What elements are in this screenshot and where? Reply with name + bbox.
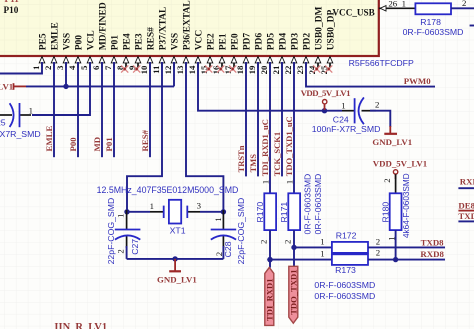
pin 22 name PD3 bbox=[291, 33, 301, 51]
svg-text:4: 4 bbox=[67, 65, 77, 70]
pin 21 name PD4 bbox=[279, 33, 289, 51]
svg-text:R178: R178 bbox=[420, 17, 441, 27]
svg-text:11: 11 bbox=[151, 66, 161, 74]
svg-text:21: 21 bbox=[271, 66, 281, 75]
pin 25 name USB0_DP bbox=[327, 9, 337, 50]
svg-text:100nF-X7R_SMD: 100nF-X7R_SMD bbox=[0, 129, 41, 139]
part number R5F566TFCDFP bbox=[349, 58, 414, 68]
resistor R180 bbox=[381, 173, 411, 241]
wire pin20 PD5 to R170 bbox=[269, 62, 271, 193]
svg-text:1: 1 bbox=[150, 201, 154, 211]
svg-text:C27: C27 bbox=[130, 239, 140, 255]
svg-text:GND_LV1: GND_LV1 bbox=[372, 137, 412, 147]
svg-text:4k64-F-0603SMD: 4k64-F-0603SMD bbox=[402, 173, 411, 238]
svg-text:10: 10 bbox=[139, 65, 149, 74]
pin 3 (VSS) arrow and number bbox=[55, 57, 69, 70]
crystal XT1 bbox=[150, 200, 202, 236]
junction R170/RXD8 line bbox=[267, 257, 272, 262]
wire C24 pin2 to ground bbox=[370, 111, 390, 127]
pin 22 (PD3) arrow and number bbox=[283, 57, 297, 75]
pin P10 (left side pin name) bbox=[4, 5, 19, 15]
svg-text:PWM0: PWM0 bbox=[404, 76, 431, 86]
junction crystal pin1 / C27 bbox=[124, 209, 129, 214]
svg-text:R170: R170 bbox=[255, 202, 265, 223]
pin 15 name PE2 bbox=[207, 33, 217, 50]
pin 12 name VSS bbox=[171, 33, 181, 50]
wire crystal bottom rail bbox=[127, 258, 224, 260]
wire crystal pin1 horizontal bbox=[127, 211, 150, 213]
wire pin13 P36/EXTAL to crystal pin3 branch bbox=[186, 62, 223, 212]
pin 13 (P36/EXTAL) arrow and number bbox=[175, 57, 189, 75]
svg-text:P00: P00 bbox=[75, 35, 85, 51]
pin 26 name VCC_USB bbox=[332, 7, 374, 17]
wire RXD8 line from R170 junction through R173 bbox=[270, 259, 332, 261]
svg-text:22pF-COG_SMD: 22pF-COG_SMD bbox=[236, 198, 246, 265]
pin 5 name VCL bbox=[87, 30, 97, 50]
svg-text:R180: R180 bbox=[381, 202, 391, 223]
svg-text:5: 5 bbox=[79, 65, 89, 70]
svg-text:0R-F-0603SMD: 0R-F-0603SMD bbox=[302, 174, 312, 235]
svg-text:R172: R172 bbox=[336, 231, 357, 241]
wire pin4 P00 down bbox=[77, 62, 79, 157]
pin 24 (USB0_DM) arrow and number bbox=[307, 57, 321, 75]
svg-text:VDD_5V_LV1: VDD_5V_LV1 bbox=[301, 88, 351, 98]
wire C27 down to rail bbox=[126, 246, 128, 259]
svg-text:PE3: PE3 bbox=[135, 33, 145, 50]
svg-text:P00: P00 bbox=[68, 137, 78, 152]
wire pin5 VCL to capacitor C25 bbox=[32, 62, 90, 115]
net label P00 bbox=[68, 137, 78, 152]
net label TMS bbox=[248, 154, 258, 173]
wire crystal pin3 horizontal bbox=[200, 211, 223, 213]
svg-text:C25: C25 bbox=[0, 118, 6, 128]
junction R180/RXD8 bbox=[393, 257, 398, 262]
pin 6 name MD/FINED bbox=[99, 2, 109, 50]
wire pin10 RES# down bbox=[149, 62, 151, 157]
svg-text:1: 1 bbox=[213, 217, 223, 221]
no-ERC marker (red X) on pin 8 bbox=[121, 65, 128, 72]
wire R171 pin2 down to TDO flag bbox=[293, 230, 295, 266]
pin 8 name PE4 bbox=[123, 33, 133, 50]
net label TRSTn bbox=[236, 145, 246, 172]
svg-text:PE2: PE2 bbox=[207, 33, 217, 50]
svg-text:TRSTn: TRSTn bbox=[236, 145, 246, 172]
svg-text:R173: R173 bbox=[335, 265, 356, 275]
svg-text:6: 6 bbox=[91, 65, 101, 70]
power port GND_LV1 left edge bbox=[0, 82, 26, 92]
svg-text:TMS: TMS bbox=[248, 154, 258, 173]
pin 14 (VCC) arrow and number bbox=[187, 57, 201, 75]
pin 4 (P00) arrow and number bbox=[67, 57, 81, 70]
pin P11 (clipped pin name sliver at top edge) bbox=[5, 0, 20, 4]
ground GND_LV1 under C24 bbox=[372, 126, 412, 147]
pin 9 (PE3) arrow and number bbox=[127, 57, 141, 70]
svg-text:0R-F-0603SMD: 0R-F-0603SMD bbox=[313, 174, 323, 235]
pin 18 name PD7 bbox=[243, 33, 253, 51]
pin 11 (P37/XTAL) arrow and number bbox=[151, 57, 165, 74]
svg-text:TDO_TXD1_uC: TDO_TXD1_uC bbox=[284, 116, 294, 176]
wire pin11 P37/XTAL to crystal pin1 branch bbox=[127, 62, 162, 212]
junction rail / GND stem bbox=[172, 256, 177, 261]
net label MD bbox=[92, 137, 102, 152]
svg-text:P01: P01 bbox=[111, 35, 121, 51]
capacitor C28 bbox=[211, 198, 246, 265]
pin 24 name USB0_DM bbox=[315, 6, 325, 50]
pin 4 name P00 bbox=[75, 35, 85, 51]
svg-text:P01: P01 bbox=[104, 137, 114, 151]
resistor R171 bbox=[279, 180, 300, 244]
value labels 0R-F-0603SMD for R170/R171 bbox=[302, 174, 323, 235]
svg-text:IIN_R_LV1: IIN_R_LV1 bbox=[54, 322, 107, 329]
svg-text:1: 1 bbox=[31, 66, 41, 70]
port flag TDI_RXD1 bbox=[265, 267, 275, 325]
svg-text:P36/EXTAL: P36/EXTAL bbox=[183, 0, 193, 50]
pin 26 VCC_USB (right side) bbox=[379, 0, 416, 11]
wire pin22 PD3 to R171 bbox=[293, 62, 295, 193]
no-ERC marker (red X) on pin 17 bbox=[229, 65, 236, 72]
svg-text:GND_LV1: GND_LV1 bbox=[0, 82, 13, 92]
svg-text:12.5MHz_407F35E012M5000_SMD: 12.5MHz_407F35E012M5000_SMD bbox=[97, 185, 239, 195]
svg-text:GND_LV1: GND_LV1 bbox=[157, 275, 197, 285]
svg-text:12: 12 bbox=[163, 65, 173, 74]
svg-text:R171: R171 bbox=[279, 202, 289, 223]
svg-text:PD6: PD6 bbox=[255, 33, 265, 51]
net label P01 bbox=[104, 137, 114, 151]
svg-text:XT1: XT1 bbox=[170, 226, 186, 236]
value label 12.5MHz crystal bbox=[97, 185, 239, 195]
svg-text:EMLE: EMLE bbox=[44, 125, 54, 151]
svg-text:PD5: PD5 bbox=[267, 33, 277, 51]
svg-text:VSS: VSS bbox=[63, 33, 73, 50]
svg-text:13: 13 bbox=[175, 65, 185, 74]
pin 16 (PE1) arrow and number bbox=[211, 57, 225, 75]
net label TXD (cut at right edge) bbox=[458, 211, 474, 221]
ground GND_LV1 under crystal bbox=[157, 259, 197, 285]
net label DE (cut at right edge) bbox=[458, 200, 474, 210]
junction pin3/GND rail bbox=[63, 84, 68, 89]
pin 14 name VCC bbox=[195, 30, 205, 51]
wire VDD port to R180 bbox=[395, 174, 397, 193]
pin 1 name PE5 bbox=[39, 33, 49, 50]
junction TDI flag / RXD8 wire bbox=[267, 257, 272, 262]
pin 17 name PE0 bbox=[231, 33, 241, 50]
pin 17 (PE0) arrow and number bbox=[223, 57, 237, 75]
svg-text:VCC: VCC bbox=[195, 30, 205, 51]
wire C28 down to rail bbox=[222, 246, 224, 259]
svg-text:1: 1 bbox=[341, 101, 345, 111]
svg-text:RXD8: RXD8 bbox=[420, 249, 444, 259]
no-ERC marker (red X) on pin 25 bbox=[325, 65, 332, 72]
svg-text:2: 2 bbox=[376, 236, 380, 246]
pin 2 (EMLE) arrow and number bbox=[43, 57, 57, 70]
pin 13 name P36/EXTAL bbox=[183, 0, 193, 50]
svg-text:7: 7 bbox=[103, 65, 113, 70]
svg-text:TDI_RXD1: TDI_RXD1 bbox=[265, 279, 275, 322]
no-ERC marker (red X) on pin 9 bbox=[133, 65, 140, 72]
wire pin6 MD down bbox=[101, 62, 103, 157]
svg-text:P10: P10 bbox=[4, 5, 19, 15]
net label RXD (cut at right edge) bbox=[458, 177, 474, 189]
net label RES# bbox=[140, 129, 150, 151]
svg-text:22: 22 bbox=[283, 65, 293, 74]
svg-text:2: 2 bbox=[259, 240, 269, 244]
resistor R173 bbox=[320, 247, 380, 275]
svg-text:VDD_5V_LV1: VDD_5V_LV1 bbox=[373, 159, 427, 169]
resistor R172 bbox=[320, 231, 380, 253]
value labels 0R-F-0603SMD for R172/R173 bbox=[314, 280, 375, 301]
svg-text:VCL: VCL bbox=[87, 30, 97, 50]
no-ERC marker (red X) on pin 24 bbox=[313, 65, 320, 72]
svg-text:22pF-COG_SMD: 22pF-COG_SMD bbox=[106, 198, 116, 265]
svg-text:PE5: PE5 bbox=[39, 33, 49, 50]
wire pin14 VCC to VDD rail bbox=[198, 62, 342, 111]
net label TDI_RXD1_uC bbox=[260, 119, 270, 176]
pin 20 (PD5) arrow and number bbox=[259, 57, 273, 75]
svg-text:26: 26 bbox=[388, 0, 397, 9]
net label TDO_TXD1_uC bbox=[284, 116, 294, 176]
wire pin7 P01 down bbox=[113, 62, 115, 157]
svg-text:C28: C28 bbox=[223, 241, 233, 257]
svg-text:RXD9: RXD9 bbox=[460, 177, 474, 187]
svg-text:PE4: PE4 bbox=[123, 33, 133, 50]
svg-text:3: 3 bbox=[197, 201, 202, 211]
pin 5 (VCL) arrow and number bbox=[79, 57, 93, 70]
svg-text:TCK_SCK1: TCK_SCK1 bbox=[272, 132, 282, 176]
svg-text:RES#: RES# bbox=[147, 27, 157, 50]
pin 25 (USB0_DP) arrow and number bbox=[319, 57, 333, 75]
wire TXD8 line from R171 junction through R172 bbox=[294, 246, 332, 248]
pin 12 (VSS) arrow and number bbox=[163, 57, 177, 75]
svg-text:PD7: PD7 bbox=[243, 33, 253, 51]
svg-text:R5F566TFCDFP: R5F566TFCDFP bbox=[349, 58, 414, 68]
svg-text:VCC_USB: VCC_USB bbox=[332, 7, 374, 17]
pin 11 name P37/XTAL bbox=[159, 7, 169, 51]
wire R180 down to RXD8 bbox=[395, 230, 397, 260]
pin 3 name VSS bbox=[63, 33, 73, 50]
svg-text:1: 1 bbox=[260, 180, 270, 184]
net label TXD8 bbox=[421, 238, 445, 248]
svg-text:TXD8: TXD8 bbox=[421, 238, 445, 248]
svg-text:DE8: DE8 bbox=[458, 200, 474, 210]
wire pin12 VSS down to GND rail bbox=[173, 62, 175, 86]
svg-text:PE0: PE0 bbox=[231, 33, 241, 50]
svg-text:USB0_DM: USB0_DM bbox=[315, 6, 325, 50]
resistor R178 bbox=[402, 0, 467, 37]
net label TCK_SCK1 bbox=[272, 132, 282, 176]
wire pin2 EMLE down bbox=[53, 62, 55, 157]
pin 20 name PD5 bbox=[267, 33, 277, 51]
svg-text:14: 14 bbox=[187, 65, 197, 74]
svg-text:EMLE: EMLE bbox=[51, 22, 61, 50]
pin 9 name PE3 bbox=[135, 33, 145, 50]
svg-text:1: 1 bbox=[320, 236, 324, 246]
wire GND rail (VSS) bbox=[26, 85, 174, 87]
svg-text:MD/FINED: MD/FINED bbox=[99, 2, 109, 50]
svg-text:1: 1 bbox=[284, 180, 294, 184]
pin 19 name PD6 bbox=[255, 33, 265, 51]
svg-text:P11: P11 bbox=[5, 0, 20, 4]
svg-text:1: 1 bbox=[320, 248, 324, 258]
resistor R170 bbox=[255, 180, 276, 244]
power port VDD_5V_LV1 (above R180) bbox=[373, 159, 427, 179]
svg-text:23: 23 bbox=[295, 65, 305, 74]
junction R171/TXD8 line bbox=[291, 245, 296, 250]
svg-text:19: 19 bbox=[247, 65, 257, 74]
pin 10 name RES# bbox=[147, 27, 157, 50]
svg-text:100nF-X7R_SMD: 100nF-X7R_SMD bbox=[312, 124, 381, 134]
wire pin1 PE5 to left edge bbox=[0, 62, 42, 74]
net label PWM0 bbox=[404, 76, 431, 86]
net label RXD8 bbox=[420, 249, 444, 259]
capacitor C27 bbox=[106, 198, 140, 265]
port flag TDO_TXD1 bbox=[289, 266, 299, 323]
pin 2 name EMLE bbox=[51, 22, 61, 50]
svg-text:0R-F-0603SMD: 0R-F-0603SMD bbox=[314, 280, 375, 290]
IC U1 microcontroller R5F566TFCDFP body bbox=[0, 0, 379, 56]
pin 18 (PD7) arrow and number bbox=[235, 57, 249, 75]
wire TXD8 to right bbox=[368, 246, 445, 248]
svg-text:2: 2 bbox=[375, 100, 379, 110]
wire R178 pin2 to right edge bbox=[451, 7, 474, 9]
pin 8 (PE4) arrow and number bbox=[115, 57, 129, 70]
svg-text:C24: C24 bbox=[333, 115, 349, 125]
pin 6 (MD/FINED) arrow and number bbox=[91, 57, 105, 70]
svg-text:RES#: RES# bbox=[140, 129, 150, 151]
svg-text:PD2: PD2 bbox=[303, 33, 313, 51]
wire pin19 PD6 (TMS) bbox=[257, 62, 259, 176]
net label IIN_R_LV1 (clipped at bottom) bbox=[54, 322, 107, 329]
svg-text:VSS: VSS bbox=[171, 33, 181, 50]
net label EMLE bbox=[44, 125, 54, 151]
capacitor C24 bbox=[312, 97, 381, 134]
svg-text:2: 2 bbox=[382, 178, 392, 182]
wire pin18 PD7 (TRSTn) bbox=[245, 62, 247, 176]
wire pin23 PD2 to PWM0 bbox=[306, 62, 435, 87]
svg-text:0R-F-0603SMD: 0R-F-0603SMD bbox=[403, 27, 464, 37]
svg-text:TDI_RXD1_uC: TDI_RXD1_uC bbox=[260, 119, 270, 176]
pin 10 (RES#) arrow and number bbox=[139, 57, 153, 75]
svg-text:1: 1 bbox=[402, 0, 406, 9]
wire pin3 VSS down to GND rail bbox=[65, 62, 67, 86]
wire R170 pin2 down to TDI flag bbox=[269, 230, 271, 268]
pin 1 (PE5) arrow and number bbox=[31, 57, 45, 70]
svg-text:2: 2 bbox=[116, 249, 126, 253]
pin 19 (PD6) arrow and number bbox=[247, 57, 261, 75]
svg-text:PD4: PD4 bbox=[279, 33, 289, 51]
svg-text:1: 1 bbox=[29, 106, 33, 116]
svg-text:2: 2 bbox=[283, 240, 293, 244]
wire pin21 PD4 (TCK_SCK1) bbox=[281, 62, 283, 176]
power port VDD_5V_LV1 (above C24) bbox=[301, 88, 351, 110]
junction crystal pin3 / C28 bbox=[221, 209, 226, 214]
svg-text:1: 1 bbox=[116, 214, 126, 218]
svg-text:3: 3 bbox=[55, 65, 65, 70]
svg-text:PE1: PE1 bbox=[219, 33, 229, 50]
svg-text:18: 18 bbox=[235, 65, 245, 74]
no-ERC marker (red X) on pin 15 bbox=[205, 65, 212, 72]
svg-text:20: 20 bbox=[259, 65, 269, 74]
no-ERC marker (red X) on pin 16 bbox=[217, 65, 224, 72]
pin 15 (PE2) arrow and number bbox=[199, 57, 213, 75]
svg-text:P37/XTAL: P37/XTAL bbox=[159, 7, 169, 51]
svg-text:TXD9: TXD9 bbox=[458, 211, 474, 221]
svg-text:TDO_TXD1: TDO_TXD1 bbox=[289, 269, 299, 314]
pin 23 (PD2) arrow and number bbox=[295, 57, 309, 75]
svg-text:0R-F-0603SMD: 0R-F-0603SMD bbox=[314, 291, 375, 301]
svg-text:2: 2 bbox=[462, 0, 466, 8]
svg-text:MD: MD bbox=[92, 137, 102, 152]
capacitor C25 (clipped at left edge) bbox=[0, 103, 41, 139]
pin 21 (PD4) arrow and number bbox=[271, 57, 285, 75]
pin 16 name PE1 bbox=[219, 33, 229, 50]
svg-text:PD3: PD3 bbox=[291, 33, 301, 51]
pin 7 name P01 bbox=[111, 35, 121, 51]
junction VDD port / rail bbox=[322, 108, 327, 113]
pin 23 name PD2 bbox=[303, 33, 313, 51]
wire stub right edge (y=25) bbox=[470, 25, 474, 27]
wire RXD8 to right bbox=[368, 259, 445, 261]
svg-text:2: 2 bbox=[376, 247, 380, 257]
svg-text:2: 2 bbox=[43, 65, 53, 70]
pin 7 (P01) arrow and number bbox=[103, 57, 117, 70]
